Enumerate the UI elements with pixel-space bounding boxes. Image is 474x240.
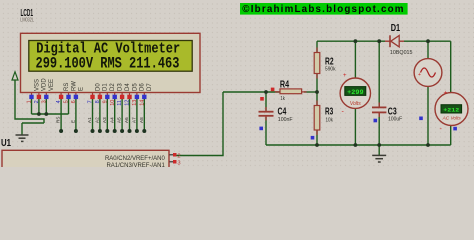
- svg-text:4: 4: [56, 100, 62, 103]
- svg-text:A6: A6: [124, 117, 129, 123]
- svg-text:D7: D7: [147, 83, 153, 91]
- svg-text:7: 7: [88, 100, 94, 103]
- svg-text:3: 3: [41, 100, 47, 103]
- svg-text:AC Volts: AC Volts: [442, 115, 462, 120]
- svg-text:A3: A3: [102, 117, 107, 123]
- svg-text:A7: A7: [132, 117, 137, 123]
- svg-text:D4: D4: [125, 83, 131, 91]
- svg-text:+: +: [418, 72, 421, 78]
- svg-text:+212: +212: [443, 107, 460, 114]
- svg-text:11: 11: [117, 100, 123, 106]
- svg-text:RA1/CN3/VREF-/AN1: RA1/CN3/VREF-/AN1: [106, 163, 165, 167]
- svg-text:RA0/CN2/VREF+/AN0: RA0/CN2/VREF+/AN0: [105, 156, 166, 162]
- svg-text:E: E: [71, 120, 76, 123]
- svg-text:9: 9: [102, 100, 108, 103]
- svg-text:100nF: 100nF: [278, 117, 293, 123]
- svg-text:2: 2: [177, 154, 180, 160]
- svg-text:©IbrahimLabs.blogspot.com: ©IbrahimLabs.blogspot.com: [242, 4, 404, 15]
- svg-text:14: 14: [139, 100, 145, 106]
- svg-text:3: 3: [177, 161, 180, 167]
- svg-text:2: 2: [34, 100, 40, 103]
- svg-text:RS: RS: [64, 83, 70, 91]
- svg-text:1k: 1k: [280, 96, 285, 102]
- svg-text:+299: +299: [347, 89, 364, 96]
- svg-text:LM032L: LM032L: [20, 18, 34, 24]
- svg-text:R4: R4: [280, 79, 290, 90]
- svg-text:12: 12: [125, 100, 131, 106]
- svg-text:D3: D3: [118, 83, 124, 91]
- svg-text:6: 6: [71, 100, 77, 103]
- svg-text:RS: RS: [56, 117, 61, 123]
- svg-text:U1: U1: [1, 138, 11, 149]
- svg-text:D5: D5: [132, 83, 138, 91]
- svg-text:299.100V RMS 211.463: 299.100V RMS 211.463: [36, 55, 180, 73]
- svg-text:D1: D1: [103, 83, 109, 91]
- svg-text:5: 5: [64, 100, 70, 103]
- svg-text:Volts: Volts: [350, 101, 361, 107]
- svg-text:VSS: VSS: [34, 79, 40, 91]
- svg-text:A8: A8: [139, 117, 144, 123]
- svg-text:VDD: VDD: [42, 78, 48, 91]
- svg-text:590k: 590k: [325, 67, 336, 73]
- svg-text:A1: A1: [87, 117, 92, 123]
- svg-text:D2: D2: [110, 83, 116, 91]
- svg-text:D1: D1: [391, 23, 401, 34]
- svg-text:10: 10: [110, 100, 116, 106]
- svg-text:10k: 10k: [326, 118, 334, 124]
- svg-text:+: +: [343, 73, 347, 79]
- svg-text:100uF: 100uF: [388, 117, 403, 123]
- svg-text:D0: D0: [95, 83, 101, 91]
- svg-text:E: E: [79, 87, 85, 91]
- svg-text:VEE: VEE: [49, 79, 55, 91]
- svg-text:D6: D6: [140, 83, 146, 91]
- svg-text:13: 13: [132, 100, 138, 106]
- svg-text:A4: A4: [109, 117, 114, 123]
- svg-text:8: 8: [95, 100, 101, 103]
- svg-text:A2: A2: [95, 117, 100, 123]
- svg-text:10BQ015: 10BQ015: [390, 50, 413, 56]
- svg-text:+: +: [444, 91, 448, 97]
- svg-text:RW: RW: [71, 81, 77, 91]
- svg-text:R3: R3: [325, 107, 333, 118]
- svg-text:A5: A5: [117, 117, 122, 123]
- svg-text:1: 1: [27, 100, 33, 103]
